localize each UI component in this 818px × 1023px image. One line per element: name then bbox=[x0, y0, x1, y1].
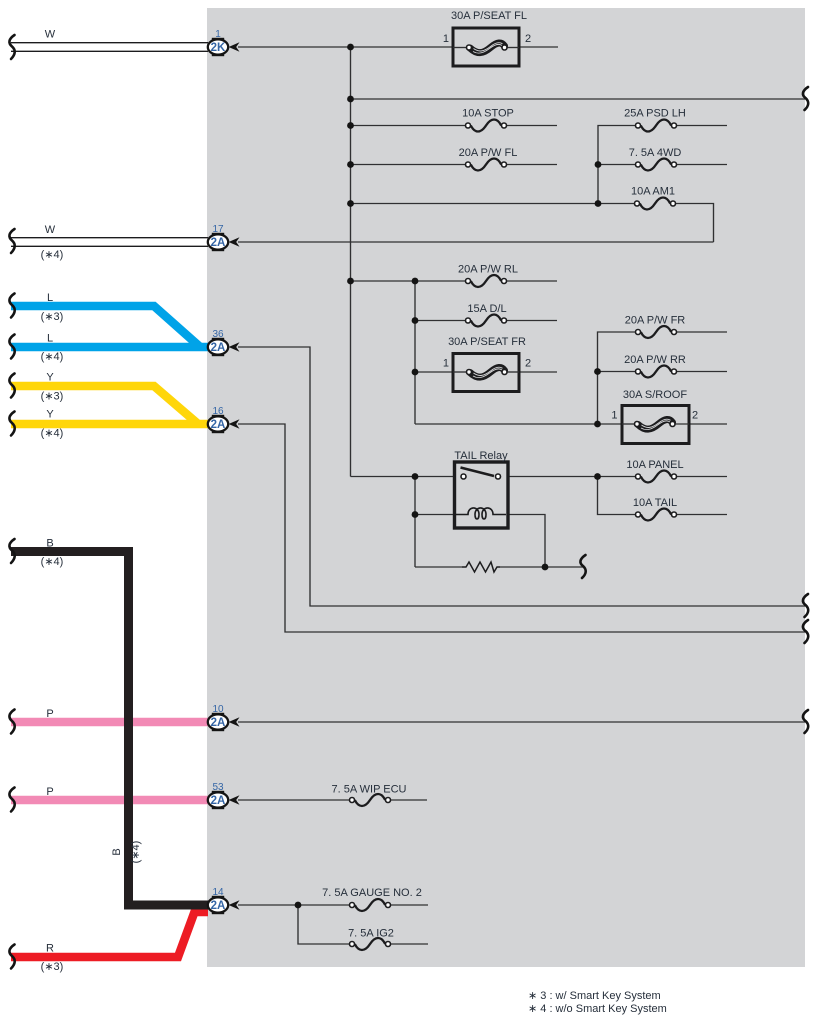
pin 10 connector 2A bbox=[208, 704, 240, 730]
wire P pin53 bbox=[11, 796, 208, 805]
wire L *4 bbox=[11, 343, 208, 352]
break P pin53 bbox=[9, 788, 14, 812]
wire 10A AM1 row bbox=[351, 204, 714, 243]
break B *4 bbox=[9, 539, 14, 563]
label 7.5A 4WD bbox=[629, 147, 682, 159]
label 15A D/L bbox=[467, 303, 506, 315]
svg-text:(∗3): (∗3) bbox=[41, 961, 64, 973]
wire 20A P/W FR row bbox=[598, 332, 728, 424]
wire long row y632 bbox=[238, 424, 805, 632]
wire 30A P/SEAT FR row bbox=[415, 371, 557, 373]
resistor bbox=[462, 562, 500, 572]
break P pin10 bbox=[9, 710, 14, 734]
wire R *3 bbox=[11, 912, 208, 957]
fuse 20A P/W RL bbox=[466, 275, 507, 287]
wire 10A TAIL row bbox=[598, 477, 728, 515]
wire B *4 bbox=[11, 552, 208, 906]
fuse 10A TAIL bbox=[636, 509, 677, 521]
wire pin1 row to fuse FL bbox=[238, 46, 558, 48]
wire 7.5A IG2 row bbox=[298, 905, 428, 944]
svg-text:20A P/W FL: 20A P/W FL bbox=[459, 147, 518, 159]
label wire L *4 bbox=[41, 333, 64, 364]
break R *3 bbox=[9, 945, 14, 969]
break right y99 bbox=[803, 87, 808, 110]
break resistor line bbox=[580, 555, 585, 578]
label 7.5A GAUGE NO.2 bbox=[322, 887, 422, 899]
svg-text:(∗4): (∗4) bbox=[130, 841, 142, 864]
svg-text:10A STOP: 10A STOP bbox=[462, 108, 514, 120]
svg-text:(∗3): (∗3) bbox=[41, 311, 64, 323]
wire 15A D/L row bbox=[415, 320, 557, 322]
svg-text:∗ 4 : w/o Smart Key System: ∗ 4 : w/o Smart Key System bbox=[528, 1003, 667, 1015]
label 20A P/W RL bbox=[458, 264, 518, 276]
svg-text:P: P bbox=[46, 708, 53, 720]
svg-text:20A P/W FR: 20A P/W FR bbox=[625, 315, 686, 327]
label 7.5A IG2 bbox=[348, 928, 394, 940]
svg-text:∗ 3 : w/ Smart Key System: ∗ 3 : w/ Smart Key System bbox=[528, 990, 661, 1002]
wire resistor row bbox=[415, 566, 583, 568]
svg-text:TAIL Relay: TAIL Relay bbox=[454, 450, 508, 462]
label wire W pin1 bbox=[45, 29, 56, 41]
svg-text:Y: Y bbox=[46, 372, 54, 384]
svg-text:1: 1 bbox=[611, 410, 617, 422]
fuse 7.5A IG2 bbox=[350, 938, 391, 950]
wire pin17 row bbox=[238, 241, 714, 243]
fuse 7.5A 4WD bbox=[636, 159, 677, 171]
pin 53 connector 2A bbox=[208, 782, 240, 808]
svg-text:30A P/SEAT FL: 30A P/SEAT FL bbox=[451, 10, 527, 22]
wire W pin17 bbox=[11, 238, 208, 247]
svg-text:2: 2 bbox=[525, 358, 531, 370]
fuse 20A P/W FR bbox=[636, 326, 677, 338]
junction block shaded area bbox=[207, 8, 805, 967]
svg-text:2: 2 bbox=[692, 410, 698, 422]
label wire L *3 bbox=[41, 292, 64, 323]
svg-text:20A P/W RR: 20A P/W RR bbox=[624, 354, 686, 366]
break W pin17 bbox=[9, 229, 14, 253]
svg-text:36: 36 bbox=[212, 329, 224, 340]
svg-text:1: 1 bbox=[443, 358, 449, 370]
label 10A TAIL bbox=[633, 497, 677, 509]
wire pin53 row bbox=[238, 799, 427, 801]
svg-text:30A P/SEAT FR: 30A P/SEAT FR bbox=[448, 336, 526, 348]
break Y *3 bbox=[9, 374, 14, 398]
svg-text:L: L bbox=[47, 333, 53, 345]
pin 36 connector 2A bbox=[208, 329, 240, 355]
label 30A P/SEAT FR bbox=[443, 336, 531, 370]
sub bus x415 upper bbox=[414, 281, 416, 424]
break right y632 bbox=[803, 620, 808, 643]
svg-text:53: 53 bbox=[212, 782, 224, 793]
svg-text:10A PANEL: 10A PANEL bbox=[626, 459, 683, 471]
fuse 30A P/SEAT FR bbox=[453, 354, 519, 392]
break right y606 bbox=[803, 594, 808, 617]
svg-text:2K: 2K bbox=[211, 42, 226, 54]
fuse 7.5A WIP ECU bbox=[350, 794, 391, 806]
label TAIL Relay bbox=[454, 450, 508, 462]
label 10A STOP bbox=[462, 108, 514, 120]
svg-text:7. 5A GAUGE NO. 2: 7. 5A GAUGE NO. 2 bbox=[322, 887, 422, 899]
fuse 15A D/L bbox=[466, 315, 507, 327]
pin 1 connector 2K bbox=[208, 29, 240, 55]
wire W pin1 bbox=[11, 43, 208, 52]
svg-text:(∗4): (∗4) bbox=[41, 249, 64, 261]
svg-text:Y: Y bbox=[46, 409, 54, 421]
svg-text:R: R bbox=[46, 943, 54, 955]
svg-text:14: 14 bbox=[212, 887, 224, 898]
main vertical bus bbox=[350, 47, 352, 477]
svg-text:20A P/W RL: 20A P/W RL bbox=[458, 264, 518, 276]
wire L *3 bbox=[11, 306, 199, 346]
wire 25A PSD LH row bbox=[598, 126, 727, 204]
svg-text:2A: 2A bbox=[211, 237, 226, 249]
svg-text:W: W bbox=[45, 29, 56, 41]
label 20A P/W FR bbox=[625, 315, 686, 327]
wire pin14 row bbox=[238, 904, 428, 906]
svg-text:1: 1 bbox=[443, 33, 449, 45]
svg-text:2A: 2A bbox=[211, 795, 226, 807]
break L *4 bbox=[9, 335, 14, 359]
wire pin10 row bbox=[238, 721, 805, 723]
svg-text:15A D/L: 15A D/L bbox=[467, 303, 506, 315]
label 20A P/W RR bbox=[624, 354, 686, 366]
label wire P pin53 bbox=[46, 786, 53, 798]
label 25A PSD LH bbox=[624, 108, 686, 120]
label 20A P/W FL bbox=[459, 147, 518, 159]
wire long row y99 bbox=[351, 98, 806, 100]
wire long row y606 bbox=[238, 347, 805, 606]
sub bus x415 relay bbox=[414, 477, 416, 568]
break W pin1 bbox=[9, 35, 14, 59]
pin 14 connector 2A bbox=[208, 887, 240, 913]
fuse 20A P/W FL bbox=[466, 159, 507, 171]
svg-text:7. 5A IG2: 7. 5A IG2 bbox=[348, 928, 394, 940]
wire TAIL relay switch row bbox=[351, 476, 728, 478]
wire 20A P/W FL row bbox=[351, 164, 558, 166]
label wire P pin10 bbox=[46, 708, 53, 720]
fuse 30A S/ROOF bbox=[622, 406, 689, 444]
wire relay coil row bbox=[415, 515, 545, 568]
wire 20A P/W RR row bbox=[598, 371, 728, 373]
svg-text:25A PSD LH: 25A PSD LH bbox=[624, 108, 686, 120]
label 10A PANEL bbox=[626, 459, 683, 471]
fuse 30A P/SEAT FL bbox=[453, 28, 519, 66]
fuse 10A PANEL bbox=[636, 471, 677, 483]
svg-text:(∗4): (∗4) bbox=[41, 556, 64, 568]
svg-text:7. 5A WIP ECU: 7. 5A WIP ECU bbox=[332, 784, 407, 796]
svg-text:P: P bbox=[46, 786, 53, 798]
svg-text:7. 5A 4WD: 7. 5A 4WD bbox=[629, 147, 682, 159]
break Y *4 bbox=[9, 412, 14, 436]
label 30A P/SEAT FL bbox=[443, 10, 531, 45]
pin 17 connector 2A bbox=[208, 224, 240, 250]
svg-text:17: 17 bbox=[212, 224, 224, 235]
label 30A S/ROOF bbox=[611, 389, 698, 422]
svg-text:30A S/ROOF: 30A S/ROOF bbox=[623, 389, 687, 401]
legend smart key bbox=[528, 990, 667, 1015]
wire 20A P/W RL row bbox=[351, 280, 558, 282]
svg-text:2A: 2A bbox=[211, 342, 226, 354]
svg-text:1: 1 bbox=[215, 29, 221, 40]
fuse 10A STOP bbox=[466, 120, 507, 132]
wire P pin10 bbox=[11, 718, 208, 727]
svg-text:16: 16 bbox=[212, 406, 224, 417]
svg-text:(∗4): (∗4) bbox=[41, 351, 64, 363]
wire Y *3 bbox=[11, 386, 197, 423]
label wire Y *3 bbox=[41, 372, 64, 403]
svg-text:10A TAIL: 10A TAIL bbox=[633, 497, 677, 509]
svg-text:B: B bbox=[111, 848, 123, 855]
fuse 7.5A GAUGE NO.2 bbox=[350, 899, 391, 911]
svg-text:2A: 2A bbox=[211, 717, 226, 729]
svg-text:L: L bbox=[47, 292, 53, 304]
svg-text:2A: 2A bbox=[211, 900, 226, 912]
svg-text:(∗4): (∗4) bbox=[41, 428, 64, 440]
svg-text:W: W bbox=[45, 224, 56, 236]
break L *3 bbox=[9, 294, 14, 318]
wire 7.5A 4WD row bbox=[598, 164, 727, 166]
label wire W pin17 bbox=[41, 224, 64, 261]
fuse 10A AM1 bbox=[635, 198, 676, 210]
wire Y *4 bbox=[11, 420, 208, 429]
svg-text:10A AM1: 10A AM1 bbox=[631, 186, 675, 198]
label wire B *4 bbox=[41, 538, 64, 569]
label 7.5A WIP ECU bbox=[332, 784, 407, 796]
svg-text:B: B bbox=[46, 538, 53, 550]
svg-text:(∗3): (∗3) bbox=[41, 391, 64, 403]
label wire R *3 bbox=[41, 943, 64, 974]
svg-text:2A: 2A bbox=[211, 419, 226, 431]
label wire B vertical bbox=[111, 841, 142, 864]
svg-text:2: 2 bbox=[525, 33, 531, 45]
relay TAIL bbox=[455, 462, 509, 528]
wire 30A S/ROOF row bbox=[415, 423, 727, 425]
fuse 20A P/W RR bbox=[636, 366, 677, 378]
label wire Y *4 bbox=[41, 409, 64, 440]
fuse 25A PSD LH bbox=[636, 120, 677, 132]
break right y722 bbox=[803, 710, 808, 733]
label 10A AM1 bbox=[631, 186, 675, 198]
pin 16 connector 2A bbox=[208, 406, 240, 432]
wire 10A STOP row bbox=[351, 125, 558, 127]
svg-text:10: 10 bbox=[212, 704, 224, 715]
